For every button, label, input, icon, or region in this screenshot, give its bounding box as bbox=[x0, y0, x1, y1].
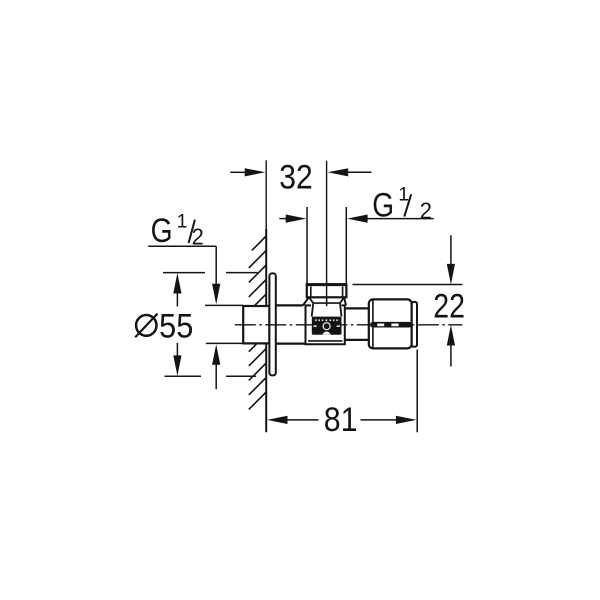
body block inner bottom line bbox=[308, 340, 343, 342]
svg-text:1: 1 bbox=[177, 211, 188, 233]
vertical centerline through nut bbox=[326, 284, 328, 306]
dim O55 shafts bbox=[176, 293, 178, 357]
label G 1/2 top bbox=[372, 183, 432, 224]
neck bottom line bbox=[313, 302, 340, 304]
arrows (filled) bbox=[173, 168, 455, 424]
left tube top edge bbox=[276, 304, 303, 306]
svg-text:2: 2 bbox=[420, 197, 432, 223]
svg-text:32: 32 bbox=[279, 158, 312, 196]
top nut inner right line bbox=[342, 286, 344, 296]
top nut thick top edge bbox=[306, 283, 347, 286]
svg-text:G: G bbox=[151, 212, 173, 250]
arrow O55 down bbox=[173, 355, 181, 376]
dim 32 right extension / top outlet centerline bbox=[326, 161, 328, 307]
arrow G1/2 top right bbox=[347, 215, 368, 223]
neck right profile bbox=[340, 298, 344, 317]
arrow 81 right bbox=[396, 416, 417, 424]
svg-text:2: 2 bbox=[192, 224, 204, 250]
pipe bottom extension line bbox=[206, 342, 243, 344]
arrow O55 up bbox=[173, 273, 181, 294]
dim 22 top arrow shaft bbox=[450, 235, 452, 265]
svg-text:22: 22 bbox=[433, 287, 465, 325]
right tube bottom edge bbox=[345, 339, 369, 341]
svg-text:G: G bbox=[372, 186, 394, 224]
right shoulder chamfer bbox=[344, 298, 346, 306]
arrow 32 left bbox=[245, 168, 266, 176]
logo plate engraving specks bbox=[313, 319, 340, 327]
dim 32 line left arrow shaft bbox=[230, 171, 246, 173]
left G1/2 underline and leader bbox=[148, 246, 216, 285]
arrow 22 down bbox=[447, 264, 455, 285]
left G1/2 bottom arrow shaft bbox=[215, 364, 217, 389]
handle slot white dash 2 bbox=[391, 324, 398, 327]
dim 22 bottom arrow shaft bbox=[450, 345, 452, 367]
arrow G1/2 left up bbox=[212, 344, 220, 365]
handle slot white dash 1 bbox=[377, 324, 384, 327]
arrow G1/2 left leader down bbox=[212, 284, 220, 305]
handle left crease bbox=[372, 300, 374, 348]
dim 81 right extension bbox=[416, 350, 418, 433]
dim 32 right arrow shaft bbox=[346, 171, 372, 173]
horizontal centerline bbox=[235, 324, 463, 326]
wall line bbox=[265, 160, 267, 432]
valve body block bbox=[306, 305, 345, 344]
arrow G1/2 top left bbox=[286, 215, 307, 223]
logo plate ring bbox=[323, 323, 330, 330]
top nut inner left line bbox=[310, 286, 312, 296]
dim G1/2 top extension lines bbox=[307, 207, 346, 283]
pipe into wall bbox=[243, 306, 269, 343]
svg-text:55: 55 bbox=[159, 308, 193, 346]
dim G1/2 top right arrow shaft bbox=[366, 218, 434, 220]
wall hatching bbox=[249, 236, 266, 409]
arrow 32 right bbox=[328, 168, 349, 176]
dim G1/2 top left arrow shaft bbox=[279, 218, 287, 220]
flange escutcheon bbox=[269, 273, 275, 375]
neck left profile bbox=[309, 298, 313, 317]
handle right cap bbox=[412, 302, 417, 347]
svg-text:1: 1 bbox=[398, 183, 409, 205]
arrow 22 up bbox=[447, 325, 455, 346]
dim 81 line bbox=[287, 419, 397, 421]
left shoulder chamfer bbox=[303, 298, 309, 306]
arrow 81 left bbox=[267, 416, 288, 424]
left tube bottom edge bbox=[276, 343, 306, 345]
logo plate bbox=[312, 317, 342, 335]
logo plate bottom dome bbox=[323, 332, 331, 335]
flange bottom reference line bbox=[165, 375, 257, 377]
pipe top extension line bbox=[205, 304, 243, 306]
dim 22 extension line bbox=[353, 284, 463, 286]
top nut bbox=[307, 284, 347, 297]
right tube top edge bbox=[345, 307, 369, 309]
flange top reference line bbox=[163, 272, 258, 274]
label O55 diameter symbol bbox=[135, 314, 157, 338]
handle body bbox=[369, 299, 412, 348]
label G 1/2 left bbox=[151, 211, 204, 250]
svg-text:81: 81 bbox=[324, 401, 358, 439]
handle slot bar bbox=[370, 322, 412, 328]
